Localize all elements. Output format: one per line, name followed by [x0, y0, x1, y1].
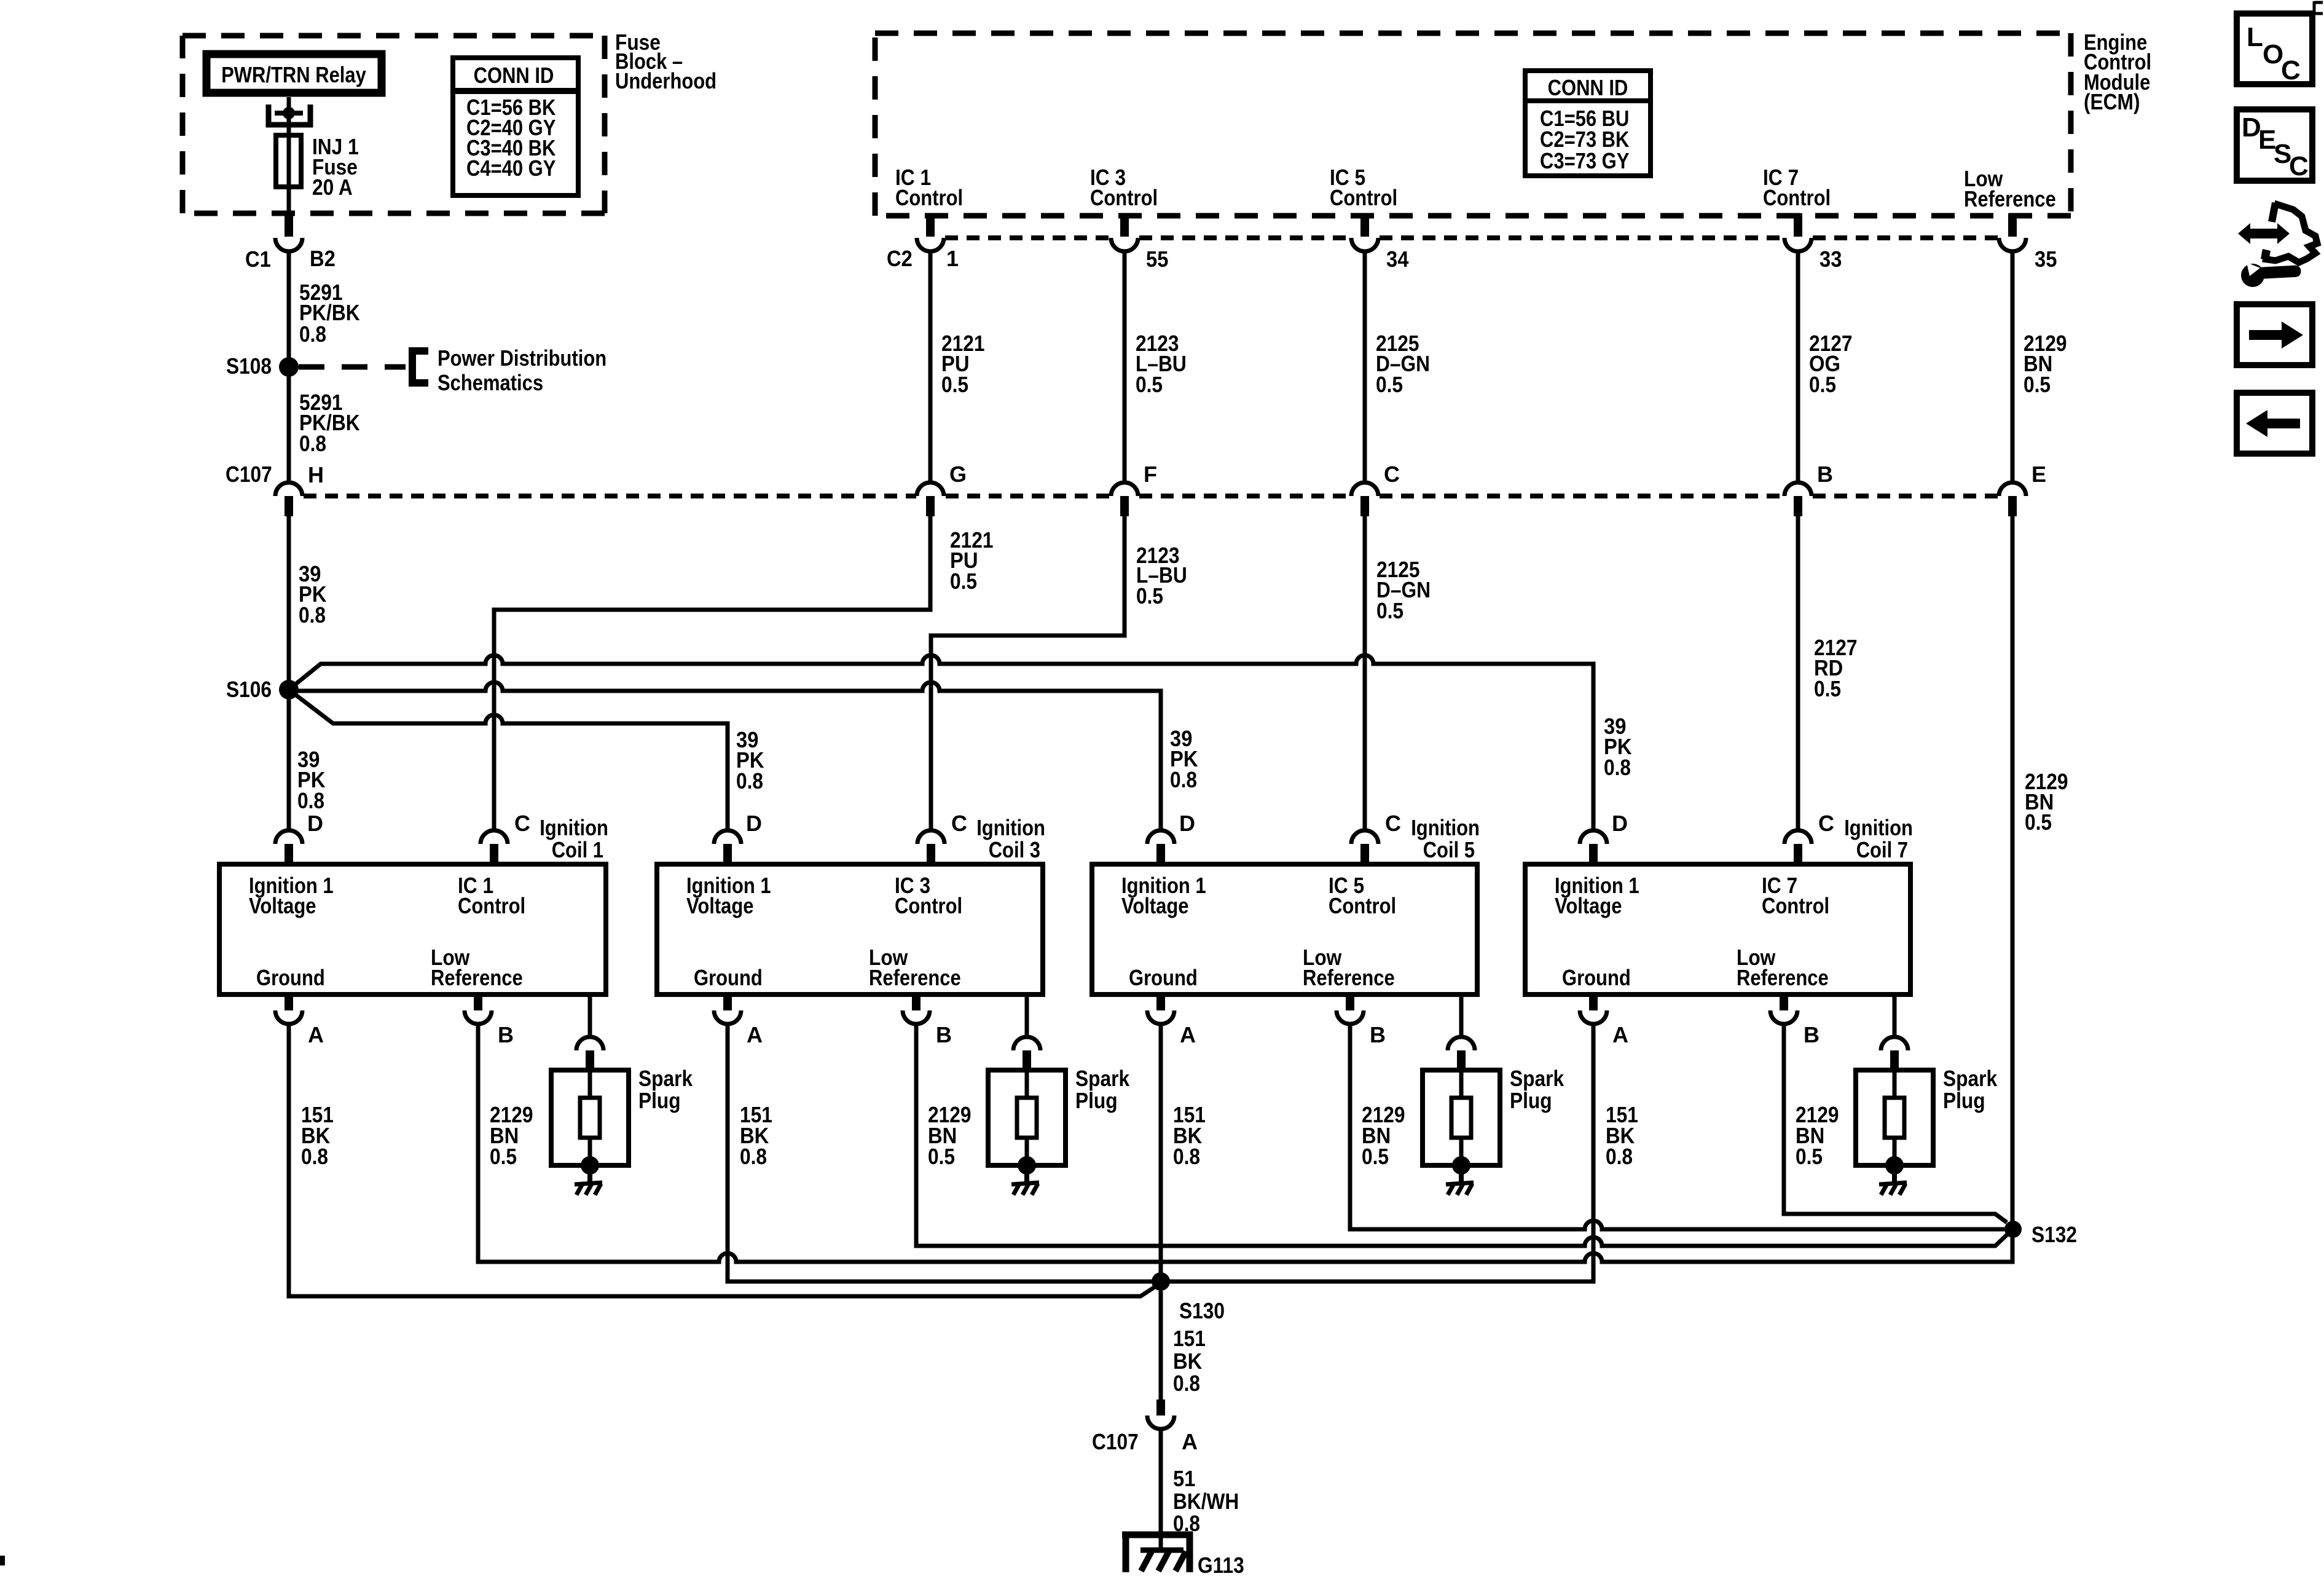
svg-text:Spark: Spark — [638, 1066, 693, 1091]
wire label 2121 PU 0.5 (upper) — [941, 331, 985, 397]
svg-text:Ground: Ground — [1562, 965, 1631, 990]
svg-text:0.5: 0.5 — [2024, 372, 2051, 397]
reference label Power Distribution Schematics — [438, 345, 607, 395]
coil 1 pin A stub — [285, 994, 293, 1010]
fuse F: INJ 1 Fuse 20 A — [276, 135, 301, 187]
svg-text:0.5: 0.5 — [1136, 372, 1163, 397]
svg-text:0.5: 0.5 — [490, 1144, 517, 1169]
svg-text:S108: S108 — [226, 353, 272, 379]
wire label 39 PK 0.8 (coil5 branch) — [1170, 726, 1198, 792]
svg-text:E: E — [2032, 462, 2046, 487]
svg-text:Control: Control — [458, 893, 525, 918]
svg-text:C1: C1 — [245, 246, 271, 272]
coil 1 pin B connector (half-circle) — [465, 1010, 492, 1024]
wire 151 BK coil7 ground (A) to S130 bus — [1169, 1024, 1593, 1282]
connector C107 pin C (half-circle) — [1351, 482, 1378, 496]
svg-text:Coil 5: Coil 5 — [1423, 837, 1475, 862]
spark plug 7 box — [1856, 1070, 1933, 1165]
wire label 2127 OG 0.5 (upper) — [1809, 331, 1853, 397]
icon vehicle with wrench — [2238, 203, 2317, 287]
conn id table (fuse block) — [453, 58, 578, 195]
wire label 5291 PK/BK 0.8 (lower) — [299, 390, 360, 456]
spark plug 5 box — [1423, 1070, 1500, 1165]
svg-text:0.8: 0.8 — [1170, 767, 1197, 792]
svg-text:A: A — [1612, 1022, 1628, 1047]
spark plug 7 internal wire — [1893, 1070, 1897, 1098]
spark plug 5 internal wire lower — [1459, 1138, 1464, 1158]
svg-text:51: 51 — [1173, 1466, 1195, 1491]
svg-text:20 A: 20 A — [312, 175, 353, 200]
svg-text:C4=40 GY: C4=40 GY — [466, 156, 555, 181]
svg-text:0.8: 0.8 — [740, 1144, 767, 1169]
coil 1 pin D connector (half-circle) — [275, 830, 302, 844]
wire 151 BK coil1 ground (A) to S130 bus — [289, 1024, 1155, 1296]
coil 1 pin C connector (half-circle) — [481, 830, 508, 844]
ignition coil 7 box — [1525, 864, 1910, 994]
reference bracket — [412, 351, 428, 383]
spark plug 1 ground stub — [587, 1173, 592, 1186]
wire label 2129 BN 0.5 (coil7) — [1796, 1102, 1839, 1169]
svg-text:A: A — [308, 1022, 324, 1047]
connector C107 pin F (half-circle) — [1111, 482, 1138, 496]
coil 1 pin D stub — [285, 844, 293, 864]
coil 3 pin D connector (half-circle) — [714, 830, 741, 844]
svg-text:0.5: 0.5 — [1814, 676, 1841, 701]
coil 5 pin D stub — [1156, 844, 1165, 864]
wire 2121 PU lower segment (C107 G to coil1 C) — [494, 516, 930, 830]
svg-text:H: H — [308, 462, 324, 487]
svg-text:0.5: 0.5 — [1376, 372, 1403, 397]
wire 2125 D-GN upper segment (pin 34 to C107 C) — [1363, 251, 1367, 482]
wire label 51 BK/WH 0.8 — [1173, 1466, 1239, 1536]
coil 5 internal labels — [1121, 873, 1396, 990]
conn id table (ECM) — [1525, 71, 1651, 176]
connector stub below C107 F — [1120, 496, 1129, 516]
splice S106 — [279, 680, 299, 699]
icon forward arrow box — [2237, 304, 2312, 365]
ground symbol (spark plug 5) — [1446, 1183, 1474, 1195]
wire label 2129 BN 0.5 (right side) — [2025, 769, 2068, 835]
svg-text:B: B — [1804, 1022, 1820, 1047]
coil 1 internal labels — [249, 873, 525, 990]
svg-text:1: 1 — [946, 246, 959, 271]
svg-text:0.5: 0.5 — [2025, 809, 2052, 835]
svg-text:D: D — [307, 811, 323, 836]
wire label 151 BK 0.8 (coil3) — [740, 1102, 772, 1169]
wire coil 5 to spark plug — [1459, 994, 1464, 1037]
svg-text:Reference: Reference — [431, 965, 523, 990]
wire 2129 BN segment (C107 E to S132) — [2011, 516, 2015, 1223]
svg-text:C: C — [1385, 811, 1401, 836]
svg-text:BK: BK — [1173, 1349, 1202, 1374]
svg-text:Control: Control — [895, 893, 962, 918]
svg-text:Spark: Spark — [1943, 1066, 1998, 1091]
svg-text:Voltage: Voltage — [686, 893, 754, 918]
wire 2121 PU upper segment (pin 1 to C107 G) — [928, 251, 933, 482]
svg-text:0.5: 0.5 — [1136, 583, 1163, 608]
icon LOC box — [2237, 14, 2312, 85]
svg-text:34: 34 — [1386, 246, 1408, 272]
svg-text:Schematics: Schematics — [438, 370, 543, 395]
svg-text:0.5: 0.5 — [1376, 598, 1403, 623]
spark plug 3 ground stub — [1024, 1173, 1029, 1186]
ignition coil 3 box — [657, 864, 1043, 994]
wire label 39 PK 0.8 (below S106) — [297, 747, 326, 813]
wire label 151 BK 0.8 (below S130) — [1173, 1326, 1206, 1396]
ignition coil 1 box — [219, 864, 606, 994]
coil 7 pin D stub — [1589, 844, 1598, 864]
connector C2 pin 1 (half-circle) — [917, 238, 944, 251]
wire label 2129 BN 0.5 (coil5) — [1362, 1102, 1405, 1169]
coil 7 pin B connector (half-circle) — [1770, 1010, 1797, 1024]
connector stub above C107 A — [1156, 1400, 1165, 1416]
svg-text:Reference: Reference — [1737, 965, 1829, 990]
svg-text:Control: Control — [1330, 185, 1397, 210]
connector stub below C107 G — [926, 496, 935, 516]
svg-text:G: G — [949, 462, 967, 487]
spark plug 5 resistor element — [1451, 1098, 1471, 1138]
wire 2129 BN coil5 low reference (B) to S132 (with hop) — [1350, 1024, 2004, 1229]
connector C2 pin 35 (half-circle) — [1999, 238, 2026, 251]
svg-text:Ignition: Ignition — [976, 815, 1045, 840]
wire 51 BK/WH C107 A to G113 — [1159, 1429, 1163, 1551]
svg-text:A: A — [747, 1022, 763, 1047]
spark plug 3 connector stub — [1023, 1050, 1031, 1070]
svg-text:C: C — [2289, 151, 2309, 181]
page mark bottom-left — [0, 1556, 5, 1565]
wire 2129 BN upper segment (pin 35 to C107 E) — [2011, 251, 2015, 482]
coil 3 internal labels — [686, 873, 962, 990]
spark plug 7 resistor element — [1885, 1098, 1904, 1138]
ground symbol (spark plug 1) — [575, 1183, 602, 1195]
relay K: PWR/TRN Relay — [206, 54, 382, 93]
svg-text:Underhood: Underhood — [615, 68, 716, 93]
svg-text:0.5: 0.5 — [950, 569, 977, 594]
wire label 2121 PU 0.5 (lower) — [950, 527, 994, 594]
svg-text:A: A — [1182, 1429, 1198, 1454]
wire 151 BK coil5 ground (A) to S130 — [1159, 1024, 1163, 1282]
wire 2129 BN coil1 low reference (B) to S132 (with hops) — [478, 1024, 2012, 1262]
svg-text:B: B — [936, 1022, 952, 1047]
svg-text:CONN ID: CONN ID — [474, 63, 554, 88]
connector C107 pin B (half-circle) — [1784, 482, 1812, 496]
svg-text:0.5: 0.5 — [1809, 372, 1836, 397]
coil 3 pin A connector (half-circle) — [714, 1010, 741, 1024]
wire 5291 PK/BK segment C1 to C107 — [287, 251, 291, 482]
wire label 2129 BN 0.5 (upper) — [2024, 331, 2067, 397]
wire coil 7 to spark plug — [1893, 994, 1897, 1037]
spark plug 7 connector (half-circle) — [1881, 1037, 1908, 1050]
coil 3 pin D stub — [723, 844, 732, 864]
wire 151 BK S130 to C107 A — [1159, 1291, 1163, 1400]
spark plug 7 internal wire lower — [1893, 1138, 1897, 1158]
svg-text:CONN ID: CONN ID — [1548, 75, 1628, 100]
svg-text:B: B — [1370, 1022, 1386, 1047]
wire 2127 RD segment (C107 B to coil7 C) — [1796, 516, 1800, 830]
wire label 2127 RD 0.5 — [1814, 635, 1858, 701]
svg-text:0.8: 0.8 — [299, 431, 326, 456]
wire label 2125 D-GN 0.5 (lower) — [1376, 557, 1431, 623]
svg-text:S106: S106 — [226, 677, 272, 702]
svg-text:Ground: Ground — [1129, 965, 1198, 990]
ECM pin function labels — [895, 165, 2056, 211]
coil 3 pin A stub — [723, 994, 732, 1010]
wire 2127 OG upper segment (pin 33 to C107 B) — [1796, 251, 1800, 482]
svg-text:0.5: 0.5 — [928, 1144, 955, 1169]
spark plug 3 resistor element — [1017, 1098, 1037, 1138]
icon back arrow box — [2237, 393, 2312, 454]
svg-text:0.8: 0.8 — [1606, 1144, 1633, 1169]
wire label 2125 D-GN 0.5 (upper) — [1376, 331, 1430, 397]
svg-text:C: C — [1818, 811, 1834, 836]
svg-text:L: L — [2247, 22, 2263, 52]
svg-text:C3=73 GY: C3=73 GY — [1540, 148, 1629, 173]
junction dot at relay terminal — [283, 107, 295, 119]
wire label 151 BK 0.8 (coil1) — [301, 1102, 334, 1169]
svg-text:Coil 1: Coil 1 — [552, 837, 603, 862]
svg-text:Control: Control — [1763, 185, 1831, 210]
coil 3 pin C connector (half-circle) — [917, 830, 944, 844]
svg-text:(ECM): (ECM) — [2084, 89, 2140, 114]
spark plug 5 ground stub — [1459, 1173, 1464, 1186]
spark plug 3 internal wire lower — [1025, 1138, 1029, 1158]
coil 3 pin B stub — [912, 994, 921, 1010]
svg-text:C: C — [514, 811, 530, 836]
spark plug 7 ground stub — [1892, 1173, 1897, 1186]
connector stub below C107 C — [1360, 496, 1369, 516]
ignition coil 5 box — [1092, 864, 1477, 994]
svg-text:Coil 7: Coil 7 — [1856, 837, 1908, 862]
spark plug 3 internal wire — [1025, 1070, 1029, 1098]
svg-text:Plug: Plug — [1075, 1088, 1118, 1113]
connector C2 pin 55 (half-circle) — [1111, 238, 1138, 251]
svg-text:D: D — [746, 811, 762, 836]
ground G113 symbol — [1122, 1532, 1193, 1572]
svg-text:S132: S132 — [2032, 1222, 2077, 1247]
svg-text:B: B — [498, 1022, 514, 1047]
spark plug 1 junction dot — [581, 1156, 599, 1175]
svg-text:33: 33 — [1820, 246, 1842, 272]
svg-text:Reference: Reference — [1964, 186, 2056, 211]
coil 3 pin C stub — [927, 844, 935, 864]
svg-text:C2: C2 — [887, 246, 913, 271]
spark plug 1 resistor element — [580, 1098, 600, 1138]
wire: relay output to fuse — [287, 97, 291, 216]
svg-text:B: B — [1817, 462, 1833, 487]
svg-text:C: C — [1384, 462, 1400, 487]
svg-text:0.5: 0.5 — [1362, 1144, 1389, 1169]
connector stub below C107 E — [2008, 496, 2017, 516]
wire label 151 BK 0.8 (coil7) — [1606, 1102, 1638, 1169]
wire coil 3 to spark plug — [1025, 994, 1029, 1037]
coil 7 pin C stub — [1794, 844, 1802, 864]
svg-text:0.8: 0.8 — [297, 788, 324, 813]
coil 7 pin C connector (half-circle) — [1784, 830, 1812, 844]
spark plug 7 connector stub — [1890, 1050, 1899, 1070]
dashed reference link to Power Distribution — [299, 364, 406, 370]
svg-text:Plug: Plug — [638, 1088, 681, 1113]
svg-text:35: 35 — [2035, 246, 2057, 272]
wire 2123 L-BU upper segment (pin 55 to C107 F) — [1123, 251, 1127, 482]
svg-text:Control: Control — [1762, 893, 1829, 918]
spark plug 5 internal wire — [1459, 1070, 1464, 1098]
wire label 5291 PK/BK 0.8 (upper) — [299, 280, 360, 347]
spark plug 1 box — [551, 1070, 629, 1165]
svg-text:C107: C107 — [226, 462, 272, 487]
wire label 2123 L-BU 0.5 (upper) — [1136, 331, 1187, 397]
icon DESC box — [2237, 109, 2312, 181]
connector C107 pin A (half-circle) — [1147, 1416, 1174, 1429]
connector C107 pin H (half-circle) — [275, 482, 302, 496]
ECM pin stubs — [930, 213, 2012, 237]
splice S108 — [279, 357, 299, 377]
svg-text:Voltage: Voltage — [249, 893, 316, 918]
svg-text:Control: Control — [895, 185, 963, 210]
svg-text:Ignition: Ignition — [1844, 815, 1913, 840]
svg-text:Control: Control — [1329, 893, 1396, 918]
svg-text:55: 55 — [1146, 246, 1168, 272]
svg-text:A: A — [1180, 1022, 1196, 1047]
wire coil 1 to spark plug — [588, 994, 592, 1037]
spark plug 1 internal wire lower — [588, 1138, 592, 1158]
connector stub below C107 B — [1794, 496, 1802, 516]
spark plug 7 junction dot — [1885, 1156, 1904, 1175]
coil 3 pin B connector (half-circle) — [903, 1010, 930, 1024]
svg-text:D: D — [1612, 811, 1628, 836]
fuse label — [312, 134, 359, 200]
wire label 2129 BN 0.5 (coil3) — [928, 1102, 972, 1169]
ground symbol (spark plug 3) — [1011, 1183, 1039, 1195]
ECM label — [2084, 30, 2151, 114]
svg-text:Plug: Plug — [1943, 1088, 1985, 1113]
svg-text:0.5: 0.5 — [941, 372, 968, 397]
spark plug 5 connector stub — [1457, 1050, 1466, 1070]
svg-text:B2: B2 — [310, 246, 336, 271]
svg-text:C: C — [2281, 55, 2301, 85]
coil 7 pin A connector (half-circle) — [1580, 1010, 1607, 1024]
page mark top-right — [2314, 1, 2323, 15]
coil 7 pin D connector (half-circle) — [1580, 830, 1607, 844]
wire label 39 PK 0.8 (above S106) — [299, 561, 327, 628]
splice S132 — [2004, 1221, 2022, 1238]
wire 39 PK branch S106 to coil5 D (with hops) — [289, 682, 1161, 830]
connector C2 pin 34 (half-circle) — [1351, 238, 1378, 251]
ground symbol (spark plug 7) — [1879, 1183, 1907, 1195]
wire label 2129 BN 0.5 (coil1) — [490, 1102, 533, 1169]
svg-text:S130: S130 — [1179, 1298, 1225, 1323]
coil 7 pin A stub — [1589, 994, 1598, 1010]
svg-text:Voltage: Voltage — [1121, 893, 1189, 918]
svg-text:Ignition: Ignition — [1411, 815, 1480, 840]
spark plug 1 connector stub — [586, 1050, 594, 1070]
spark plug 5 connector (half-circle) — [1448, 1037, 1475, 1050]
wire label 39 PK 0.8 (coil7 branch) — [1604, 714, 1632, 780]
svg-text:Reference: Reference — [869, 965, 961, 990]
relay terminal bracket — [269, 104, 310, 125]
svg-text:F: F — [1144, 462, 1157, 487]
svg-text:Ground: Ground — [256, 965, 325, 990]
spark plug 3 junction dot — [1018, 1156, 1036, 1175]
fuse block label — [615, 30, 716, 93]
wire label 2123 L-BU 0.5 (lower) — [1136, 543, 1187, 608]
svg-text:D: D — [1179, 811, 1195, 836]
splice S130 — [1152, 1272, 1170, 1291]
svg-text:Spark: Spark — [1510, 1066, 1564, 1091]
wire 39 PK segment C107 to S106 — [287, 516, 291, 830]
spark plug 5 junction dot — [1452, 1156, 1470, 1175]
coil 5 pin B connector (half-circle) — [1337, 1010, 1364, 1024]
coil 5 pin B stub — [1346, 994, 1354, 1010]
spark plug 1 connector (half-circle) — [576, 1037, 603, 1050]
svg-text:Control: Control — [1090, 185, 1158, 210]
wire 2123 L-BU lower segment (C107 F to coil3 C) — [931, 516, 1125, 830]
svg-text:BK/WH: BK/WH — [1173, 1489, 1239, 1514]
svg-text:0.5: 0.5 — [1796, 1144, 1823, 1169]
svg-text:PWR/TRN Relay: PWR/TRN Relay — [221, 62, 366, 87]
svg-text:Plug: Plug — [1510, 1088, 1552, 1113]
coil 7 internal labels — [1555, 873, 1829, 990]
coil 1 pin C stub — [490, 844, 498, 864]
coil 5 pin D connector (half-circle) — [1147, 830, 1174, 844]
engine control module ECM (dashed enclosure) — [875, 33, 2071, 216]
coil 7 pin B stub — [1780, 994, 1788, 1010]
svg-text:Ignition: Ignition — [540, 815, 608, 840]
connector C107 dotted line — [304, 494, 1998, 498]
svg-text:Spark: Spark — [1075, 1066, 1130, 1091]
wire 2125 D-GN lower segment (C107 C to coil5 C) — [1363, 516, 1367, 830]
spark plug 3 connector (half-circle) — [1013, 1037, 1040, 1050]
coil 5 pin C stub — [1360, 844, 1369, 864]
wire 2129 BN coil3 low reference (B) to S132 (with hop) — [916, 1024, 2007, 1246]
svg-text:Ground: Ground — [694, 965, 763, 990]
wire 2129 BN coil7 low reference (B) to S132 — [1784, 1024, 2007, 1223]
svg-text:0.8: 0.8 — [299, 602, 326, 628]
connector C2 pin 33 (half-circle) — [1784, 238, 1812, 251]
connector C1 pin B2 (half-circle) — [275, 238, 302, 251]
coil 5 pin A connector (half-circle) — [1147, 1010, 1174, 1024]
svg-text:Power Distribution: Power Distribution — [438, 345, 607, 371]
connector C2 dotted line — [945, 235, 1998, 240]
svg-text:C: C — [951, 811, 967, 836]
spark plug 1 internal wire — [588, 1070, 592, 1098]
svg-text:0.8: 0.8 — [301, 1144, 328, 1169]
svg-text:0.8: 0.8 — [1173, 1144, 1200, 1169]
wire label 151 BK 0.8 (coil5) — [1173, 1102, 1206, 1169]
svg-text:0.8: 0.8 — [1604, 755, 1631, 780]
wire 151 BK coil3 ground (A) to S130 — [728, 1024, 1153, 1282]
svg-text:0.8: 0.8 — [736, 768, 763, 793]
connector C107 pin E (half-circle) — [1999, 482, 2026, 496]
svg-text:C107: C107 — [1092, 1429, 1139, 1454]
svg-text:Coil 3: Coil 3 — [989, 837, 1040, 862]
wire 39 PK branch S106 to coil3 D (with hop) — [289, 690, 728, 830]
connector stub at fuse block exit — [285, 213, 293, 237]
svg-text:151: 151 — [1173, 1326, 1206, 1351]
svg-text:0.8: 0.8 — [299, 321, 326, 347]
coil 1 pin B stub — [474, 994, 482, 1010]
fuse block - underhood (dashed enclosure) — [183, 36, 605, 213]
connector C107 pin G (half-circle) — [917, 482, 944, 496]
coil 5 pin A stub — [1156, 994, 1165, 1010]
wire label 39 PK 0.8 (coil3 branch) — [736, 727, 764, 793]
connector stub below C107 H — [285, 496, 293, 516]
svg-text:0.8: 0.8 — [1173, 1371, 1200, 1396]
svg-text:G113: G113 — [1198, 1553, 1244, 1578]
coil 1 pin A connector (half-circle) — [275, 1010, 302, 1024]
spark plug 3 box — [988, 1070, 1066, 1165]
coil 5 pin C connector (half-circle) — [1351, 830, 1378, 844]
relay terminal bar — [275, 111, 303, 116]
